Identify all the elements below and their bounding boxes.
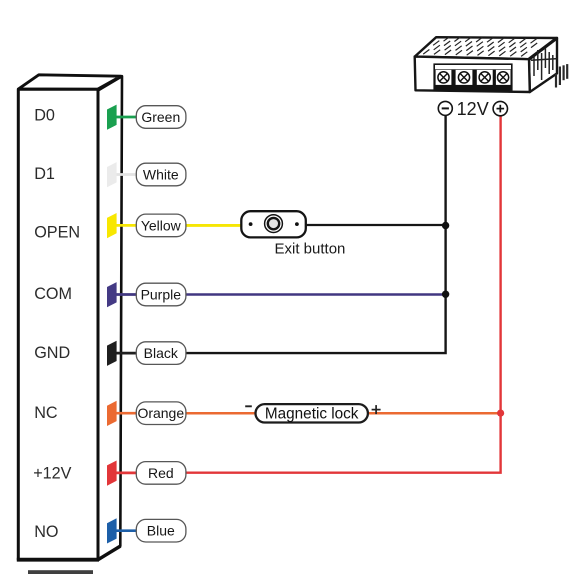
svg-text:D1: D1 bbox=[34, 165, 55, 183]
svg-text:White: White bbox=[143, 167, 179, 183]
svg-text:Blue: Blue bbox=[147, 523, 175, 539]
svg-text:NO: NO bbox=[34, 523, 58, 541]
svg-text:OPEN: OPEN bbox=[34, 224, 80, 242]
svg-text:Green: Green bbox=[141, 109, 180, 125]
svg-text:Magnetic lock: Magnetic lock bbox=[265, 405, 359, 422]
svg-text:Black: Black bbox=[144, 345, 179, 361]
svg-text:Orange: Orange bbox=[137, 405, 184, 421]
svg-text:Purple: Purple bbox=[141, 287, 182, 303]
svg-text:NC: NC bbox=[34, 404, 58, 422]
svg-text:Red: Red bbox=[148, 465, 174, 481]
svg-text:Yellow: Yellow bbox=[141, 217, 182, 233]
svg-text:12V: 12V bbox=[457, 99, 489, 119]
svg-text:D0: D0 bbox=[34, 107, 55, 125]
svg-text:Exit button: Exit button bbox=[275, 240, 346, 257]
svg-text:COM: COM bbox=[34, 285, 72, 303]
svg-text:GND: GND bbox=[34, 344, 70, 362]
svg-text:+12V: +12V bbox=[33, 465, 71, 483]
